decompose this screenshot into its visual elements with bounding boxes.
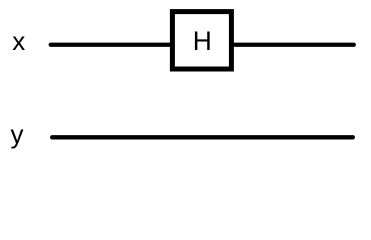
- gate H box U1: [172, 12, 231, 69]
- svg-text:x: x: [12, 26, 25, 56]
- svg-text:H: H: [193, 26, 212, 56]
- wire x left segment: [51, 43, 172, 47]
- svg-text:y: y: [11, 119, 24, 149]
- wire y: [52, 135, 353, 139]
- wire x right segment: [233, 43, 354, 47]
